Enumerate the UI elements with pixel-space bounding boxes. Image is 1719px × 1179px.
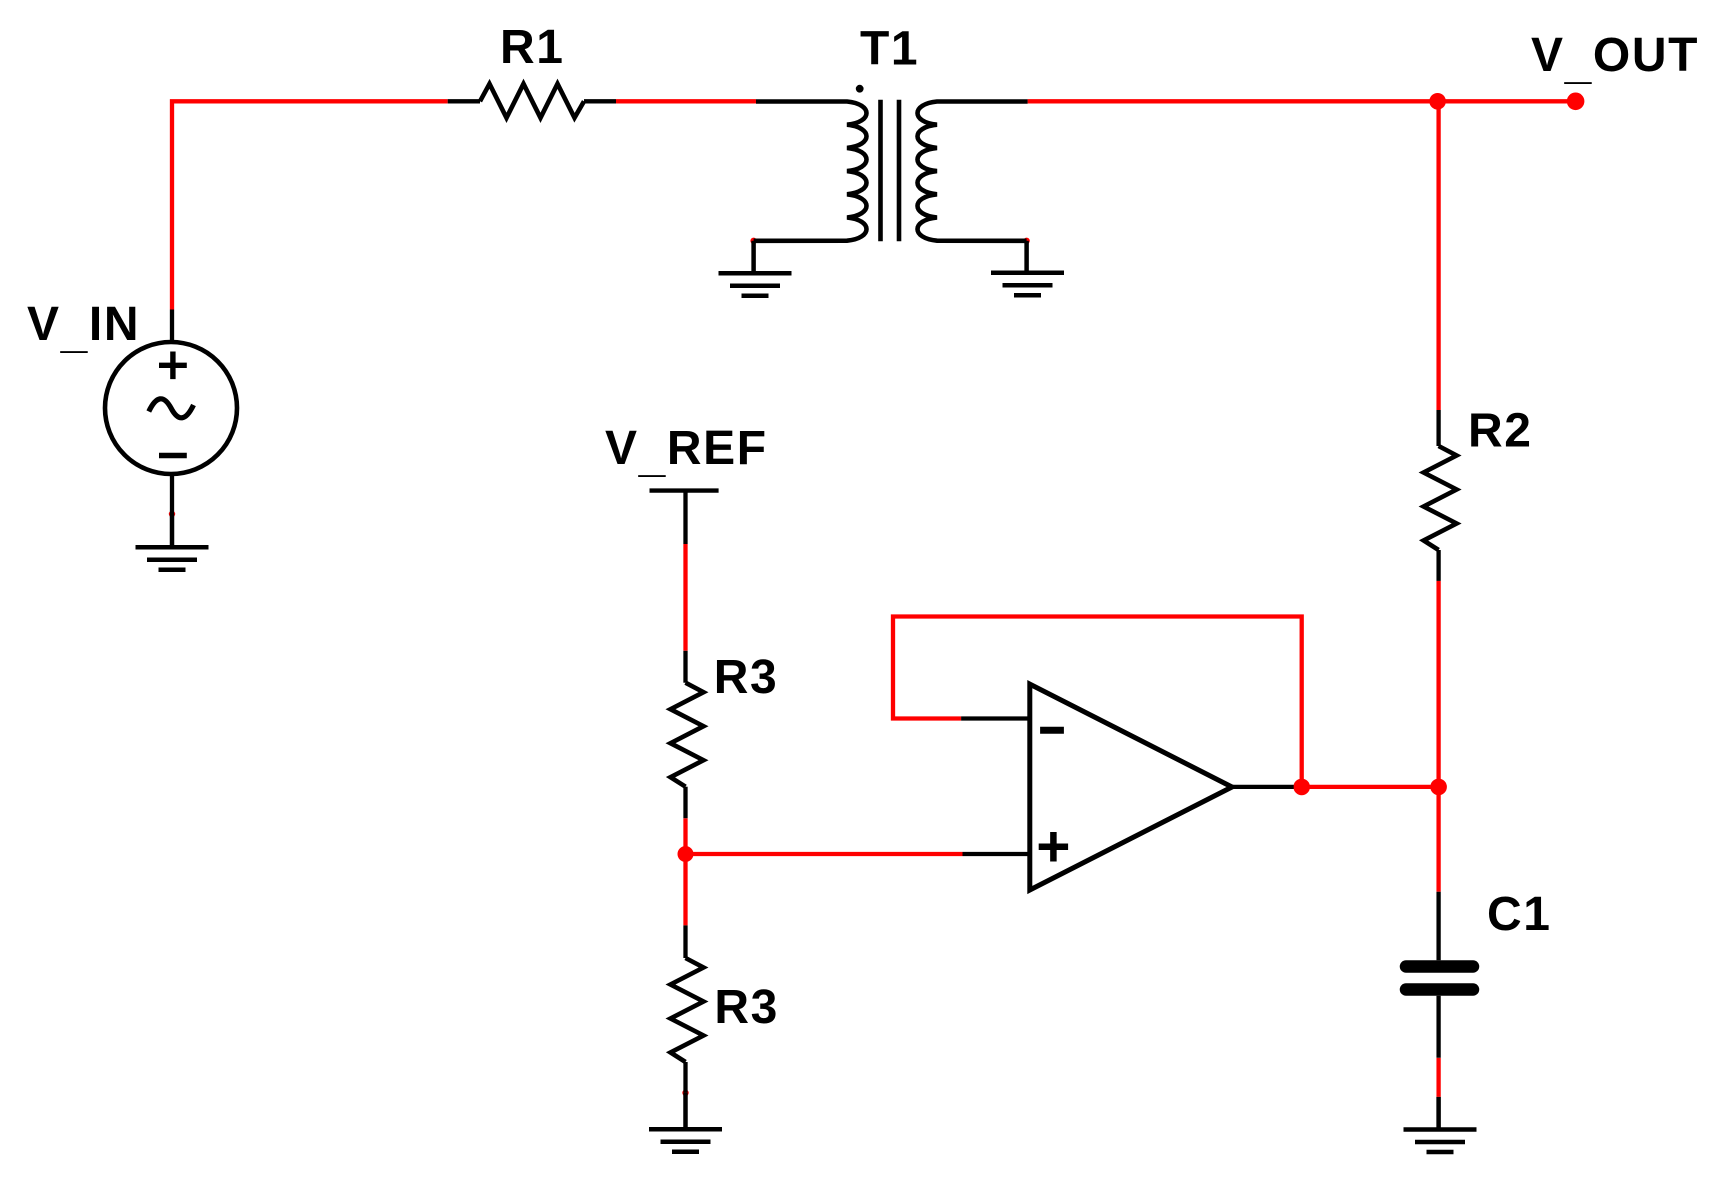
svg-text:T1: T1 — [860, 23, 919, 76]
node rail junction at output — [1430, 779, 1447, 796]
node R3 ground dot — [682, 1090, 688, 1096]
node T1 left ground dot — [750, 238, 756, 244]
capacitor C1 — [1406, 892, 1473, 1058]
wire op-amp output — [1294, 785, 1439, 789]
svg-text:V_OUT: V_OUT — [1531, 29, 1699, 89]
wire V_IN to R1 (top left L) — [172, 101, 448, 309]
wire V_REF to R3 — [683, 544, 687, 651]
svg-text:R1: R1 — [500, 21, 565, 74]
node V_OUT terminal — [1567, 93, 1585, 111]
wire node to C1 — [1436, 787, 1440, 892]
node op-amp output junction — [1293, 779, 1310, 796]
ground below T1 secondary — [991, 241, 1064, 295]
svg-text:V_REF: V_REF — [605, 422, 768, 482]
ground below T1 primary — [719, 241, 792, 296]
svg-text:V_IN: V_IN — [27, 298, 140, 358]
power flag V_REF — [650, 491, 719, 544]
wire R1 to T1 — [616, 99, 756, 103]
wire R2 to output node — [1436, 581, 1440, 787]
ground below C1 — [1404, 1097, 1477, 1152]
wire R3 node R3 — [683, 818, 687, 925]
ground below V_IN — [136, 514, 209, 570]
secondary winding — [918, 102, 1028, 241]
ground below R3 lower — [649, 1093, 722, 1152]
resistor R1 — [448, 84, 616, 118]
svg-text:R3: R3 — [714, 651, 779, 704]
node junction top rail — [1429, 93, 1446, 110]
primary winding — [754, 102, 867, 241]
core — [881, 100, 900, 242]
resistor R3 upper — [671, 651, 704, 818]
node T1 right ground dot — [1023, 238, 1029, 244]
wire feedback loop — [893, 617, 1302, 787]
transformer T1 — [754, 100, 1028, 242]
node V_IN ground dot — [169, 511, 175, 517]
wire C1 to ground — [1436, 1058, 1440, 1097]
svg-text:R2: R2 — [1468, 405, 1533, 458]
wire V_OUT rail down to R2 — [1436, 101, 1440, 410]
node R3 divider junction — [678, 846, 694, 862]
resistor R3 lower — [671, 925, 704, 1092]
svg-text:C1: C1 — [1487, 888, 1552, 941]
svg-text:R3: R3 — [714, 981, 779, 1034]
wire node to op-amp plus input — [686, 852, 963, 856]
op-amp U1 — [961, 684, 1294, 890]
resistor R2 — [1424, 410, 1457, 581]
voltage source V_IN — [105, 310, 237, 515]
wire T1 to V_OUT — [1028, 99, 1576, 103]
phasing dot T1 — [856, 85, 864, 93]
